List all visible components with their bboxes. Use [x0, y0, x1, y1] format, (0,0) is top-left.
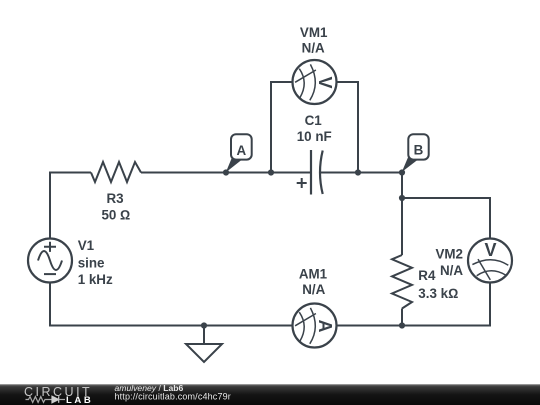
wire V1 bottom to bottom rail [49, 283, 51, 326]
svg-text:1 kHz: 1 kHz [78, 272, 113, 287]
svg-text:V1: V1 [78, 238, 95, 253]
capacitor C1 [311, 150, 323, 195]
label AM1 [299, 266, 328, 297]
svg-text:50 Ω: 50 Ω [101, 207, 130, 222]
footer bar [0, 384, 540, 405]
wire bottom rail right of AM1 [337, 325, 491, 327]
wire top-left horizontal [50, 172, 91, 174]
svg-text:http://circuitlab.com/c4hc79r: http://circuitlab.com/c4hc79r [115, 391, 231, 401]
svg-text:AM1: AM1 [299, 266, 328, 281]
svg-text:LAB: LAB [66, 395, 93, 405]
junction dot R4 bottom [399, 322, 405, 328]
wire left vertical to V1 [49, 172, 51, 239]
svg-text:10 nF: 10 nF [297, 129, 332, 144]
svg-text:V: V [484, 240, 496, 260]
resistor R3 [91, 162, 141, 182]
svg-text:N/A: N/A [440, 263, 463, 278]
ground [186, 326, 222, 363]
label R3 value [101, 191, 130, 223]
wire R3 to node A to capacitor [141, 172, 311, 174]
wire node B branch to VM2 [402, 197, 491, 199]
voltage source V1 [28, 239, 72, 283]
label V1 value [78, 238, 113, 287]
junction dot ground [201, 322, 207, 328]
junction dot VM1 left [268, 169, 274, 175]
label VM2 [435, 247, 463, 278]
svg-text:sine: sine [78, 255, 105, 270]
svg-text:A: A [236, 143, 246, 158]
junction dot VM2 branch [399, 195, 405, 201]
svg-text:R3: R3 [106, 191, 123, 206]
resistor R4 [392, 255, 412, 309]
svg-text:R4: R4 [418, 268, 436, 283]
footer logo squiggle [26, 396, 66, 403]
wire VM1 right branch [337, 81, 358, 174]
voltmeter VM2 [468, 239, 512, 283]
wire right vertical node B to R4 [401, 172, 403, 256]
wire VM1 left branch [271, 82, 293, 174]
svg-text:VM2: VM2 [435, 247, 463, 262]
svg-text:A: A [315, 320, 335, 333]
node A flag [226, 134, 252, 172]
junction dot VM1 right [355, 169, 361, 175]
voltmeter VM1 [293, 60, 337, 104]
junction node A dot [223, 169, 229, 175]
wire VM2 top vertical [489, 198, 491, 239]
svg-text:N/A: N/A [302, 41, 325, 56]
wire capacitor to node B [319, 172, 402, 174]
capacitor C1 plus sign [297, 178, 307, 188]
svg-text:C1: C1 [305, 113, 323, 128]
wire R4 bottom [401, 309, 403, 327]
label C1 value [297, 113, 332, 144]
node B flag [402, 134, 429, 172]
svg-text:V: V [315, 76, 335, 88]
wire bottom rail left of AM1 [49, 325, 293, 327]
svg-text:VM1: VM1 [300, 25, 328, 40]
svg-text:B: B [414, 143, 424, 158]
wire VM2 bottom vertical [489, 283, 491, 327]
ammeter AM1 [293, 304, 337, 348]
svg-text:3.3 kΩ: 3.3 kΩ [418, 286, 458, 301]
svg-text:N/A: N/A [302, 282, 325, 297]
label VM1 [300, 25, 328, 56]
junction node B dot [399, 169, 405, 175]
label R4 value [418, 268, 458, 301]
